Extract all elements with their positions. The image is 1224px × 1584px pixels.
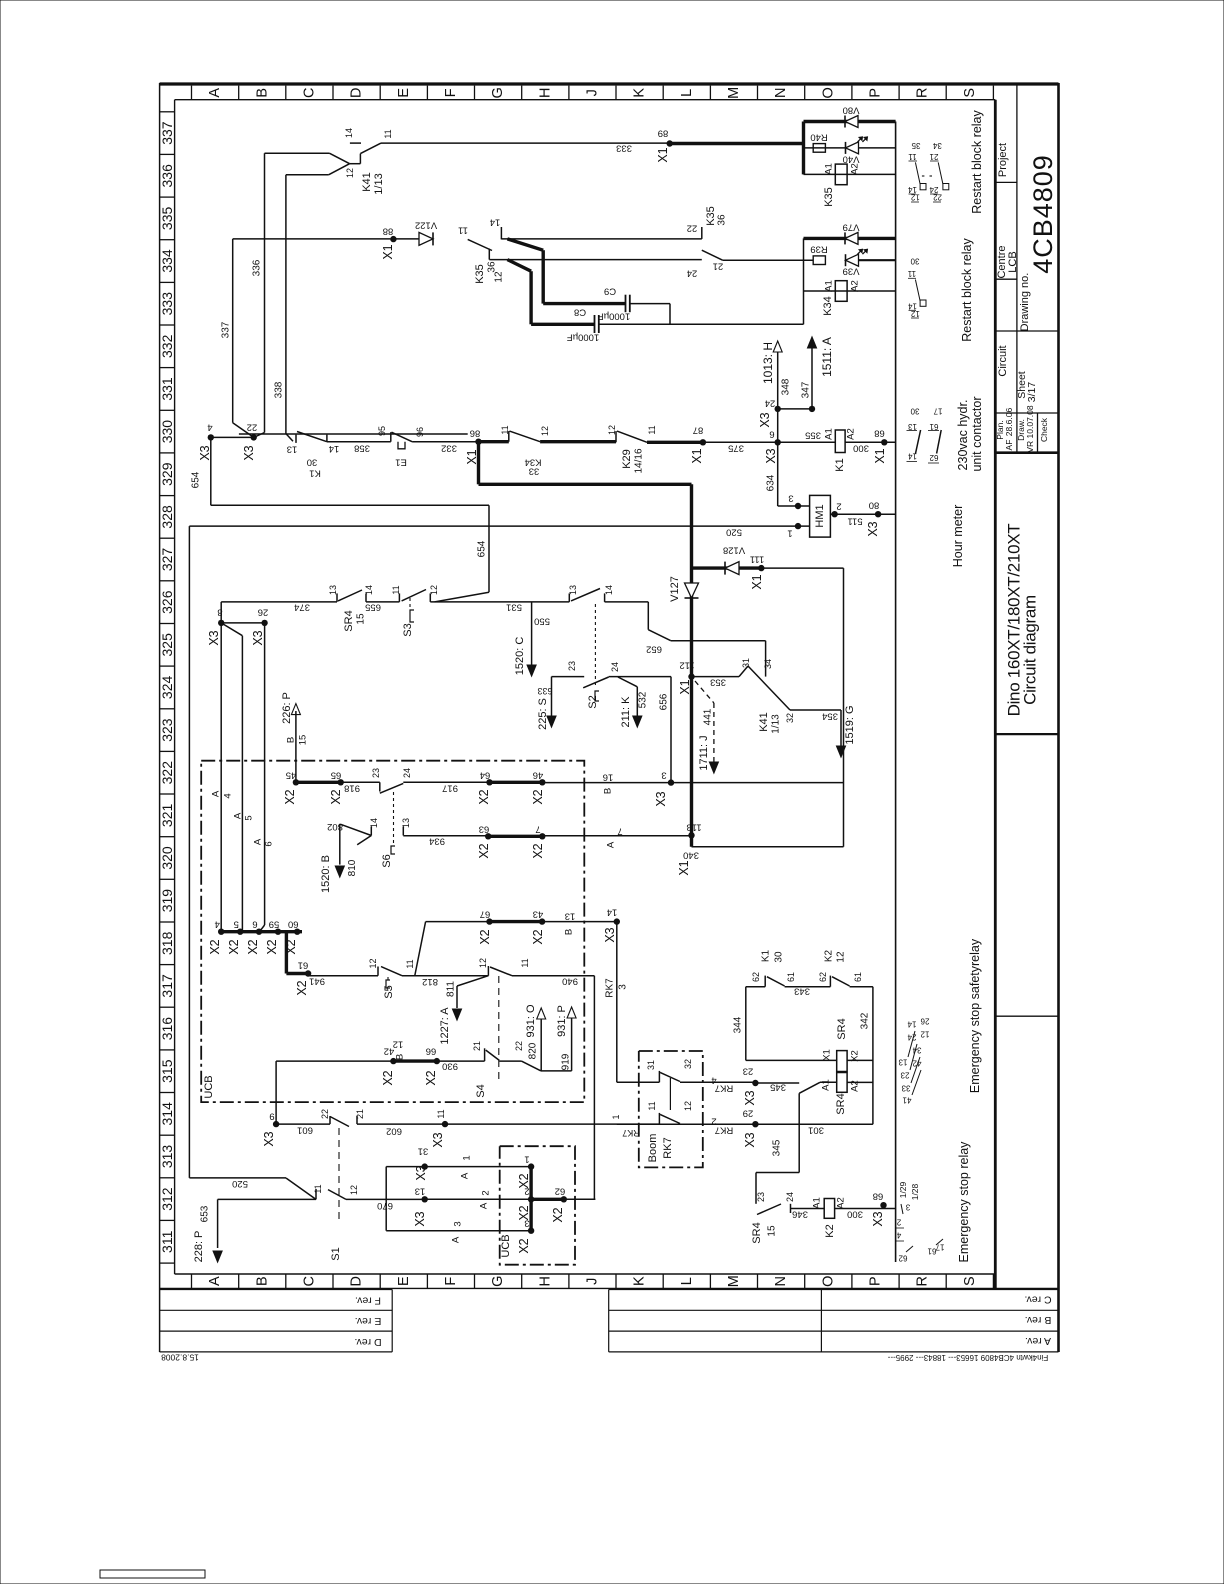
svg-text:14: 14: [364, 585, 374, 595]
svg-text:11: 11: [383, 129, 393, 138]
svg-text:X3: X3: [603, 927, 617, 942]
svg-text:654: 654: [191, 471, 202, 488]
svg-text:B: B: [254, 1276, 270, 1286]
svg-text:12: 12: [349, 1185, 359, 1195]
svg-text:9: 9: [269, 1111, 274, 1122]
svg-text:Circuit diagram: Circuit diagram: [1021, 595, 1040, 705]
svg-text:35: 35: [911, 141, 920, 150]
svg-text:11: 11: [520, 958, 530, 967]
svg-text:X3: X3: [262, 1131, 276, 1146]
svg-text:A: A: [451, 1236, 462, 1243]
svg-text:326: 326: [159, 590, 175, 614]
svg-text:A1: A1: [821, 1079, 832, 1091]
svg-text:338: 338: [274, 381, 285, 398]
svg-text:312: 312: [159, 1187, 175, 1211]
svg-text:355: 355: [805, 430, 821, 441]
svg-text:A2: A2: [850, 163, 861, 175]
svg-text:B: B: [286, 737, 297, 743]
svg-text:520: 520: [726, 527, 742, 538]
svg-text:L: L: [679, 1277, 695, 1285]
svg-text:1511: A: 1511: A: [820, 337, 834, 377]
svg-text:S6: S6: [381, 854, 393, 867]
svg-text:B: B: [564, 929, 575, 935]
svg-text:F: F: [443, 1277, 459, 1286]
svg-text:SR4: SR4: [343, 610, 355, 631]
svg-text:61: 61: [298, 960, 309, 971]
svg-text:31: 31: [741, 658, 751, 668]
svg-text:15.8.2008: 15.8.2008: [161, 1353, 199, 1363]
svg-text:E: E: [396, 88, 412, 98]
svg-text:345: 345: [772, 1139, 783, 1156]
svg-text:13: 13: [898, 1058, 907, 1067]
svg-text:353: 353: [710, 677, 726, 688]
svg-text:M: M: [726, 1275, 742, 1287]
svg-text:S4: S4: [475, 1084, 487, 1097]
svg-text:12: 12: [920, 1030, 929, 1039]
svg-text:327: 327: [159, 548, 175, 572]
svg-text:A rev.: A rev.: [1025, 1335, 1051, 1347]
svg-text:3: 3: [661, 770, 666, 781]
svg-text:13: 13: [908, 422, 917, 431]
svg-text:AF: AF: [1004, 440, 1014, 451]
svg-text:SR4: SR4: [751, 1222, 763, 1243]
svg-text:X3: X3: [207, 630, 221, 645]
svg-text:R39: R39: [810, 244, 827, 255]
svg-text:RK7: RK7: [715, 1083, 733, 1094]
svg-text:4CB4809: 4CB4809: [1028, 154, 1058, 274]
svg-text:C rev.: C rev.: [1024, 1294, 1051, 1306]
svg-text:14: 14: [329, 443, 340, 454]
svg-text:36: 36: [487, 261, 498, 273]
svg-text:4: 4: [207, 422, 212, 433]
svg-text:D: D: [349, 1276, 365, 1286]
svg-text:14: 14: [908, 452, 917, 461]
svg-text:11: 11: [405, 959, 415, 968]
svg-text:113: 113: [686, 822, 701, 833]
svg-text:12: 12: [429, 585, 439, 595]
svg-text:S: S: [962, 1276, 978, 1286]
svg-text:1520: C: 1520: C: [514, 637, 526, 676]
svg-text:23: 23: [900, 1071, 909, 1080]
svg-text:B rev.: B rev.: [1025, 1314, 1052, 1326]
svg-text:931: O: 931: O: [525, 1004, 537, 1037]
svg-text:1/13: 1/13: [771, 714, 782, 734]
svg-text:SR4: SR4: [835, 1093, 847, 1114]
svg-text:26: 26: [920, 1017, 929, 1026]
svg-text:B: B: [603, 788, 614, 794]
svg-text:11: 11: [458, 225, 468, 236]
svg-text:3: 3: [618, 984, 629, 990]
svg-text:550: 550: [534, 616, 550, 627]
svg-text:A: A: [460, 1172, 471, 1179]
svg-text:810: 810: [347, 859, 358, 876]
svg-text:K41: K41: [361, 172, 373, 192]
svg-text:SR4: SR4: [836, 1018, 848, 1039]
svg-text:346: 346: [792, 1209, 808, 1220]
svg-text:2: 2: [836, 501, 841, 512]
svg-text:J: J: [584, 1278, 600, 1285]
svg-text:11: 11: [500, 425, 510, 434]
svg-text:S3: S3: [402, 623, 414, 636]
svg-text:K1: K1: [309, 468, 321, 479]
svg-text:1520: B: 1520: B: [320, 855, 332, 893]
svg-text:337: 337: [221, 321, 232, 338]
svg-text:60: 60: [288, 919, 299, 930]
svg-text:228: P: 228: P: [193, 1231, 205, 1263]
svg-text:K: K: [632, 1276, 648, 1286]
svg-text:24: 24: [907, 1033, 916, 1042]
svg-text:67: 67: [480, 909, 491, 920]
svg-text:42: 42: [384, 1046, 395, 1057]
svg-text:940: 940: [562, 976, 578, 987]
svg-text:531: 531: [506, 602, 522, 613]
svg-text:11: 11: [436, 1109, 446, 1118]
svg-text:13: 13: [565, 911, 576, 922]
svg-text:322: 322: [159, 761, 175, 785]
svg-text:A: A: [479, 1202, 490, 1209]
svg-text:4: 4: [223, 793, 234, 798]
svg-text:S2: S2: [587, 695, 599, 708]
svg-text:E rev.: E rev.: [355, 1315, 382, 1327]
svg-text:931: P: 931: P: [556, 1005, 568, 1037]
svg-text:21: 21: [472, 1041, 482, 1051]
svg-text:670: 670: [377, 1200, 393, 1211]
svg-text:11: 11: [647, 1101, 657, 1110]
svg-text:D rev.: D rev.: [354, 1336, 381, 1348]
svg-text:314: 314: [159, 1102, 175, 1126]
svg-text:7: 7: [617, 826, 622, 837]
svg-text:X3: X3: [654, 791, 668, 806]
svg-text:21: 21: [929, 152, 938, 161]
svg-text:812: 812: [422, 976, 438, 987]
svg-text:87: 87: [693, 425, 704, 436]
svg-text:13: 13: [568, 585, 578, 595]
svg-text:320: 320: [159, 846, 175, 870]
svg-text:5: 5: [234, 919, 239, 930]
svg-text:F: F: [443, 88, 459, 97]
svg-text:G: G: [490, 87, 506, 98]
svg-text:337: 337: [159, 121, 175, 145]
svg-text:14: 14: [344, 128, 354, 138]
svg-text:315: 315: [159, 1059, 175, 1083]
svg-text:30: 30: [910, 407, 919, 416]
svg-text:A2: A2: [836, 1197, 847, 1209]
svg-text:A1: A1: [824, 428, 835, 440]
svg-text:11: 11: [391, 585, 401, 594]
svg-text:61: 61: [853, 972, 863, 982]
svg-text:12: 12: [368, 958, 378, 968]
svg-text:31: 31: [646, 1060, 656, 1070]
svg-text:N: N: [773, 88, 789, 98]
svg-text:31: 31: [418, 1146, 429, 1157]
svg-text:511: 511: [847, 516, 862, 527]
svg-text:324: 324: [159, 676, 175, 700]
svg-text:X2: X2: [478, 929, 492, 944]
svg-text:V128: V128: [723, 545, 745, 556]
svg-text:62: 62: [555, 1186, 566, 1197]
svg-text:X1: X1: [381, 244, 395, 259]
svg-text:334: 334: [159, 249, 175, 273]
svg-text:X3: X3: [871, 1211, 885, 1226]
svg-text:M: M: [726, 87, 742, 99]
svg-text:36: 36: [717, 214, 728, 226]
svg-text:934: 934: [429, 836, 445, 847]
svg-text:316: 316: [159, 1017, 175, 1041]
svg-text:300: 300: [853, 443, 869, 454]
svg-text:R40: R40: [810, 132, 827, 143]
svg-text:X2: X2: [227, 939, 241, 954]
svg-text:RK7: RK7: [622, 1128, 640, 1138]
svg-text:15: 15: [298, 735, 309, 746]
svg-text:95: 95: [377, 426, 387, 436]
svg-text:633: 633: [537, 686, 552, 696]
svg-text:21: 21: [355, 1109, 365, 1119]
svg-text:112: 112: [679, 660, 694, 671]
svg-text:X3: X3: [251, 630, 265, 645]
svg-text:15: 15: [767, 1225, 778, 1237]
svg-text:14: 14: [490, 217, 501, 228]
svg-text:V122: V122: [415, 220, 437, 231]
svg-text:Restart block relay: Restart block relay: [970, 109, 984, 213]
svg-text:12: 12: [345, 168, 355, 178]
svg-text:802: 802: [327, 821, 343, 832]
svg-text:111: 111: [750, 554, 764, 565]
svg-text:RK7: RK7: [605, 978, 616, 998]
svg-text:UCB: UCB: [500, 1234, 512, 1257]
svg-text:Restart block relay: Restart block relay: [960, 237, 974, 341]
svg-text:12: 12: [494, 271, 505, 283]
svg-text:24: 24: [929, 185, 938, 194]
svg-text:24: 24: [785, 1192, 795, 1202]
svg-text:343: 343: [794, 986, 810, 997]
svg-text:63: 63: [479, 824, 490, 835]
svg-text:A: A: [211, 790, 222, 797]
svg-text:4: 4: [896, 1231, 901, 1240]
svg-text:X2: X2: [329, 789, 343, 804]
svg-text:8: 8: [217, 607, 222, 618]
svg-text:29: 29: [743, 1108, 754, 1119]
svg-text:22: 22: [933, 193, 942, 202]
svg-text:317: 317: [159, 974, 175, 998]
svg-text:354: 354: [822, 711, 838, 722]
svg-text:R: R: [915, 1276, 931, 1286]
svg-text:HM1: HM1: [814, 504, 826, 527]
svg-text:X3: X3: [743, 1090, 757, 1105]
svg-text:K1: K1: [834, 458, 846, 471]
svg-text:X3: X3: [431, 1132, 445, 1147]
svg-text:12: 12: [836, 951, 847, 963]
svg-text:13: 13: [415, 1186, 426, 1197]
svg-text:A1: A1: [812, 1197, 823, 1209]
svg-text:RK7: RK7: [662, 1137, 674, 1158]
svg-text:23: 23: [743, 1066, 754, 1077]
svg-text:329: 329: [159, 462, 175, 486]
svg-text:62: 62: [751, 972, 761, 982]
svg-text:R: R: [915, 88, 931, 98]
svg-text:96: 96: [415, 427, 425, 437]
svg-text:225: S: 225: S: [537, 698, 549, 730]
svg-text:A: A: [207, 88, 223, 98]
svg-text:S5: S5: [383, 985, 395, 998]
svg-text:313: 313: [159, 1145, 175, 1169]
svg-text:22: 22: [514, 1041, 524, 1051]
svg-text:V40: V40: [843, 154, 860, 165]
svg-text:333: 333: [616, 143, 632, 154]
svg-text:917: 917: [442, 783, 458, 794]
svg-text:K2: K2: [824, 1224, 836, 1237]
svg-text:3: 3: [788, 493, 793, 504]
svg-text:12: 12: [478, 958, 488, 968]
svg-text:1: 1: [611, 1114, 621, 1119]
svg-text:68: 68: [874, 428, 885, 439]
svg-text:12: 12: [683, 1101, 693, 1111]
svg-text:23: 23: [756, 1192, 766, 1202]
svg-text:321: 321: [159, 804, 175, 828]
svg-text:X2: X2: [265, 939, 279, 954]
svg-text:Emergency stop safetyrelay: Emergency stop safetyrelay: [968, 938, 982, 1093]
svg-text:66: 66: [426, 1046, 437, 1057]
svg-text:21: 21: [713, 261, 724, 272]
svg-text:UCB: UCB: [203, 1075, 215, 1098]
svg-text:1711: J: 1711: J: [698, 735, 710, 770]
svg-text:24: 24: [765, 398, 776, 409]
svg-text:A: A: [207, 1276, 223, 1286]
svg-text:K35: K35: [705, 206, 717, 226]
svg-text:X1: X1: [750, 574, 764, 589]
svg-text:X2: X2: [517, 1238, 531, 1253]
svg-text:3: 3: [905, 1203, 910, 1212]
svg-text:226: P: 226: P: [281, 692, 293, 724]
svg-text:Drawing no.: Drawing no.: [1019, 273, 1031, 332]
svg-text:634: 634: [766, 474, 777, 491]
svg-text:13: 13: [401, 818, 411, 828]
svg-text:14: 14: [604, 585, 614, 595]
svg-text:X3: X3: [198, 445, 212, 460]
svg-text:80: 80: [869, 500, 880, 511]
svg-text:16: 16: [603, 772, 614, 783]
svg-text:1013: H: 1013: H: [761, 342, 775, 384]
svg-text:X1: X1: [822, 1049, 833, 1061]
svg-text:13: 13: [287, 444, 298, 455]
svg-text:X1: X1: [656, 147, 670, 162]
svg-text:23: 23: [567, 661, 577, 671]
svg-text:11: 11: [647, 425, 657, 434]
svg-text:64: 64: [480, 770, 491, 781]
svg-text:H: H: [537, 88, 553, 98]
svg-text:1227: A: 1227: A: [439, 1007, 451, 1045]
svg-text:6: 6: [252, 919, 257, 930]
svg-text:VR 10.07.08: VR 10.07.08: [1025, 405, 1035, 453]
svg-text:A1: A1: [824, 163, 835, 175]
svg-text:G: G: [490, 1276, 506, 1287]
svg-text:3: 3: [453, 1221, 464, 1226]
svg-text:323: 323: [159, 718, 175, 742]
svg-text:X3: X3: [764, 448, 778, 463]
svg-text:X3: X3: [414, 1165, 428, 1180]
svg-text:30: 30: [307, 457, 318, 468]
svg-text:K: K: [632, 88, 648, 98]
svg-text:61: 61: [786, 972, 796, 982]
svg-text:344: 344: [733, 1016, 744, 1033]
svg-text:375: 375: [728, 443, 744, 454]
svg-text:41: 41: [902, 1096, 911, 1105]
svg-text:A1: A1: [824, 280, 835, 292]
svg-text:23: 23: [371, 768, 381, 778]
svg-text:347: 347: [801, 381, 812, 398]
svg-text:656: 656: [659, 693, 670, 710]
svg-text:X1: X1: [678, 679, 692, 694]
svg-text:331: 331: [159, 377, 175, 401]
svg-text:V39: V39: [843, 266, 860, 277]
svg-text:B: B: [395, 1054, 406, 1060]
svg-text:1/29: 1/29: [898, 1181, 908, 1198]
svg-text:X3: X3: [413, 1211, 427, 1226]
svg-text:61: 61: [927, 1247, 936, 1256]
svg-text:62: 62: [929, 453, 938, 462]
svg-text:330: 330: [159, 420, 175, 444]
svg-text:Project: Project: [997, 143, 1009, 177]
svg-text:1: 1: [787, 528, 792, 539]
svg-text:340: 340: [683, 850, 699, 861]
svg-text:Emergency stop relay: Emergency stop relay: [957, 1141, 971, 1263]
svg-text:32: 32: [785, 713, 795, 723]
svg-text:33: 33: [901, 1084, 910, 1093]
svg-text:325: 325: [159, 633, 175, 657]
svg-text:F rev.: F rev.: [355, 1295, 381, 1307]
svg-text:333: 333: [159, 292, 175, 316]
svg-text:336: 336: [159, 164, 175, 188]
svg-text:919: 919: [561, 1053, 572, 1070]
svg-text:Check: Check: [1039, 417, 1049, 442]
svg-text:6: 6: [769, 429, 774, 440]
svg-text:X2: X2: [424, 1070, 438, 1085]
svg-text:30: 30: [774, 951, 785, 963]
svg-text:P: P: [868, 88, 884, 98]
svg-text:300: 300: [847, 1209, 863, 1220]
svg-text:336: 336: [252, 259, 263, 276]
svg-text:332: 332: [441, 443, 457, 454]
svg-text:X3: X3: [743, 1132, 757, 1147]
svg-text:K1: K1: [761, 949, 772, 962]
svg-text:S: S: [962, 88, 978, 98]
svg-text:D: D: [349, 88, 365, 98]
svg-text:1: 1: [524, 1154, 529, 1165]
svg-text:C9: C9: [604, 286, 616, 297]
svg-text:LCB: LCB: [1007, 251, 1019, 272]
svg-text:X2: X2: [551, 1207, 565, 1222]
svg-text:O: O: [820, 87, 836, 98]
svg-text:918: 918: [344, 783, 360, 794]
svg-text:E1: E1: [395, 457, 407, 468]
svg-text:X2: X2: [295, 980, 309, 995]
svg-text:86: 86: [470, 428, 481, 439]
svg-text:65: 65: [331, 770, 342, 781]
svg-text:P: P: [868, 1276, 884, 1286]
svg-text:59: 59: [269, 919, 280, 930]
svg-text:441: 441: [703, 708, 714, 725]
svg-text:E: E: [396, 1276, 412, 1286]
svg-text:X2: X2: [381, 1070, 395, 1085]
svg-text:X3: X3: [866, 521, 880, 536]
svg-text:602: 602: [386, 1125, 402, 1136]
svg-text:Boom: Boom: [647, 1134, 659, 1163]
svg-text:N: N: [773, 1276, 789, 1286]
svg-text:24: 24: [402, 768, 412, 778]
svg-text:311: 311: [159, 1230, 175, 1253]
svg-text:68: 68: [873, 1191, 884, 1202]
svg-text:230vac hydr.: 230vac hydr.: [956, 400, 970, 471]
svg-text:2: 2: [524, 1186, 529, 1197]
